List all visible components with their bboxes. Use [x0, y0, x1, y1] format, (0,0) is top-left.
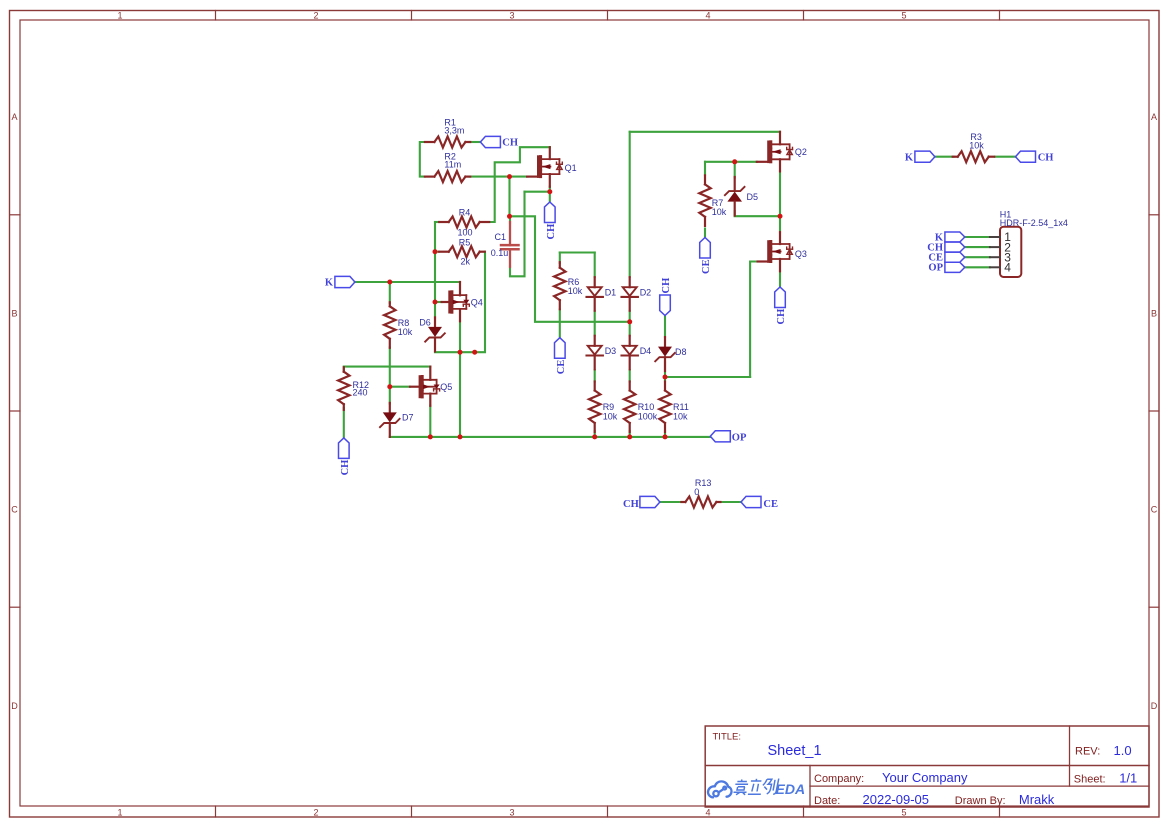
svg-text:CE: CE [701, 259, 712, 274]
wire [459, 321, 461, 352]
svg-text:10k: 10k [603, 411, 618, 421]
svg-text:D: D [1151, 701, 1158, 711]
wire [435, 251, 439, 253]
wire [510, 192, 525, 277]
junction R11 / OP rail [663, 434, 668, 439]
svg-text:10k: 10k [969, 140, 984, 150]
net flag CE [700, 238, 711, 259]
svg-text:5: 5 [901, 10, 906, 20]
wire [459, 352, 461, 437]
junction Q4 gate / D6 [433, 300, 438, 305]
svg-text:C1: C1 [495, 232, 507, 242]
wire [390, 386, 410, 388]
junction R8 / Q5 gate [387, 384, 392, 389]
junction Q4 column / OP rail [458, 434, 463, 439]
svg-text:D2: D2 [640, 288, 652, 298]
wire [664, 431, 666, 437]
svg-text:EDA: EDA [776, 781, 806, 797]
svg-text:10k: 10k [712, 207, 727, 217]
svg-text:D7: D7 [402, 413, 414, 423]
wire [664, 362, 666, 382]
Q5 drain lead [429, 367, 431, 380]
svg-text:2022-09-05: 2022-09-05 [863, 792, 930, 807]
wire [435, 221, 439, 223]
Q4 gate lead [442, 301, 450, 303]
wire [435, 252, 485, 353]
diode D1 [594, 277, 596, 287]
transistor Q3 [769, 242, 793, 262]
svg-text:Sheet:: Sheet: [1074, 773, 1106, 785]
wire [735, 211, 780, 216]
junction source row / R5 rail [472, 350, 477, 355]
resistor R2 [425, 176, 435, 178]
resistor R6 [559, 262, 561, 268]
wire [509, 216, 511, 223]
Q5 gate lead [410, 386, 420, 388]
svg-text:A: A [1151, 112, 1157, 122]
wire [660, 501, 682, 503]
wire [390, 436, 711, 438]
junction D8 / R11 / Q3 gate [663, 375, 668, 380]
transistor Q2 [769, 142, 793, 162]
net flag K [915, 151, 935, 162]
wire [355, 281, 460, 283]
svg-text:A: A [11, 112, 17, 122]
JLC EDA logo cloud [708, 781, 732, 797]
svg-text:10k: 10k [398, 327, 413, 337]
wire [470, 141, 481, 143]
wire [420, 142, 425, 177]
zener diode D8 [664, 337, 666, 347]
wire [750, 262, 758, 378]
svg-text:0.1u: 0.1u [491, 248, 509, 258]
svg-text:Mrakk: Mrakk [1019, 792, 1055, 807]
svg-text:CH: CH [661, 278, 672, 294]
svg-text:2: 2 [313, 808, 318, 818]
wire [594, 311, 596, 336]
svg-text:10k: 10k [568, 286, 583, 296]
junction C1 top [507, 214, 512, 219]
net flag CE [555, 338, 566, 359]
svg-text:Q1: Q1 [565, 163, 577, 173]
svg-text:B: B [1151, 308, 1157, 318]
svg-text:D1: D1 [605, 288, 617, 298]
wire [434, 222, 436, 302]
wire [665, 376, 750, 378]
wire [965, 236, 990, 238]
svg-text:100k: 100k [638, 411, 658, 421]
transistor Q1 [538, 157, 562, 177]
svg-text:1: 1 [117, 10, 122, 20]
wire [630, 131, 780, 133]
wire [965, 246, 990, 248]
Q1 source lead [549, 174, 551, 187]
svg-text:Company:: Company: [814, 773, 864, 785]
junction K / R8 [387, 280, 392, 285]
net flag K [945, 232, 965, 242]
wire [779, 171, 781, 232]
wire [389, 387, 391, 404]
wire [389, 348, 391, 387]
wire [705, 161, 757, 163]
wire [594, 253, 596, 278]
diode D3 [594, 336, 596, 346]
svg-text:CE: CE [763, 499, 778, 510]
net flag CH [480, 136, 500, 147]
junction C1 net / D2-D4 [627, 319, 632, 324]
wire [559, 253, 561, 264]
svg-text:0: 0 [694, 487, 699, 497]
net flag OP [710, 431, 730, 442]
capacitor C1 [501, 244, 519, 247]
pin 3 [990, 256, 1000, 258]
junction R9 / OP rail [592, 434, 597, 439]
resistor R13 [681, 501, 685, 503]
svg-text:2: 2 [313, 10, 318, 20]
resistor R8 [389, 302, 391, 306]
connector H1 [1000, 227, 1021, 277]
Q3 drain lead [779, 232, 781, 244]
wire [629, 370, 631, 382]
svg-text:HDR-F-2.54_1x4: HDR-F-2.54_1x4 [1000, 218, 1068, 228]
resistor R12 [343, 367, 345, 372]
net flag CH [775, 287, 786, 308]
wire [594, 370, 596, 382]
Q3 gate lead [758, 260, 769, 262]
svg-text:B: B [11, 308, 17, 318]
svg-text:TITLE:: TITLE: [713, 732, 742, 743]
svg-text:10k: 10k [673, 411, 688, 421]
wire [525, 191, 550, 193]
net flag CH [1016, 151, 1036, 162]
wire [965, 256, 990, 258]
resistor R10 [629, 382, 631, 391]
svg-text:Q5: Q5 [440, 382, 452, 392]
svg-text:C: C [11, 505, 18, 515]
svg-text:K: K [325, 278, 334, 289]
net flag CH [945, 242, 965, 252]
junction Q1 gate / R2 [507, 174, 512, 179]
JLC EDA logo text (jia li chuang) [733, 779, 779, 795]
svg-text:CH: CH [1038, 153, 1054, 164]
Q2 gate lead [757, 161, 769, 163]
svg-text:11m: 11m [444, 159, 461, 169]
wire [935, 156, 954, 158]
svg-text:C: C [1151, 505, 1158, 515]
svg-text:R4: R4 [459, 208, 471, 218]
wire [965, 266, 990, 268]
resistor R7 [704, 175, 706, 184]
svg-text:D: D [11, 701, 18, 711]
wire [560, 251, 595, 253]
Q2 drain lead [779, 132, 781, 145]
net flag CE [741, 496, 761, 507]
zener diode D6 [434, 317, 436, 327]
wire [720, 501, 741, 503]
wire [629, 311, 631, 336]
net flag CE [945, 252, 965, 262]
resistor R4 [439, 221, 449, 223]
svg-text:D5: D5 [747, 192, 759, 202]
Q4 drain lead [459, 282, 461, 295]
svg-text:OP: OP [928, 263, 943, 274]
wire [664, 316, 666, 338]
net flag K [335, 276, 355, 287]
svg-text:Q3: Q3 [795, 249, 807, 259]
wire [508, 177, 510, 217]
junction Q5 source / OP rail [428, 434, 433, 439]
Q2 source lead [779, 159, 781, 171]
transistor Q5 [420, 377, 440, 397]
svg-text:Date:: Date: [814, 795, 840, 807]
wire [389, 282, 391, 303]
junction Q4 source row [458, 350, 463, 355]
wire [344, 367, 431, 372]
wire [995, 156, 1016, 158]
wire [343, 408, 345, 438]
svg-text:100: 100 [458, 228, 473, 238]
wire [734, 162, 736, 178]
svg-text:Q2: Q2 [795, 147, 807, 157]
svg-text:REV:: REV: [1075, 746, 1100, 758]
svg-text:4: 4 [705, 10, 710, 20]
svg-text:D4: D4 [640, 346, 652, 356]
diode D4 [629, 336, 631, 346]
svg-text:CE: CE [556, 360, 567, 375]
wire [704, 229, 706, 238]
pin 1 [990, 236, 1000, 238]
wire [490, 147, 550, 222]
svg-text:4: 4 [705, 808, 710, 818]
svg-text:Q4: Q4 [471, 298, 483, 308]
wire [434, 302, 436, 318]
pin 2 [990, 246, 1000, 248]
junction R10 / OP rail [627, 434, 632, 439]
Q3 source lead [779, 259, 781, 271]
pin 4 [990, 266, 1000, 268]
svg-text:1: 1 [117, 808, 122, 818]
wire [435, 301, 442, 303]
svg-text:CH: CH [623, 499, 639, 510]
Q1 drain lead [549, 147, 551, 159]
wire [629, 431, 631, 437]
svg-text:1/1: 1/1 [1119, 771, 1137, 786]
resistor R3 [953, 156, 958, 158]
wire [510, 216, 630, 321]
wire [779, 271, 781, 287]
junction Q1 source [547, 189, 552, 194]
net flag CH [660, 295, 671, 316]
svg-text:5: 5 [901, 808, 906, 818]
transistor Q4 [450, 292, 470, 312]
resistor R9 [594, 382, 596, 391]
resistor R5 [439, 251, 449, 253]
net flag CH [640, 496, 660, 507]
svg-text:2k: 2k [461, 257, 471, 267]
junction Q2 gate / R7 / D5 [732, 159, 737, 164]
svg-text:K: K [905, 153, 914, 164]
net flag CH [339, 438, 350, 459]
svg-text:D6: D6 [419, 317, 431, 327]
svg-text:D3: D3 [605, 346, 617, 356]
resistor R11 [664, 382, 666, 391]
wire [594, 431, 596, 437]
svg-text:CH: CH [546, 224, 557, 240]
Q5 source lead [429, 394, 431, 406]
wire [470, 176, 528, 178]
wire [429, 406, 431, 437]
svg-text:Your Company: Your Company [882, 770, 968, 785]
svg-text:CH: CH [502, 138, 518, 149]
diode D2 [629, 277, 631, 287]
svg-text:Sheet_1: Sheet_1 [768, 743, 822, 759]
svg-text:CH: CH [340, 460, 351, 476]
Q4 source lead [459, 309, 461, 321]
svg-text:240: 240 [353, 388, 368, 398]
svg-text:3: 3 [509, 10, 514, 20]
Q1 gate lead [527, 176, 538, 178]
zener diode D5 [734, 177, 736, 191]
junction Q2 source / Q3 drain / D5 [778, 214, 783, 219]
svg-text:CH: CH [776, 309, 787, 325]
net flag CH [545, 202, 556, 223]
wire [549, 187, 551, 202]
wire [704, 162, 706, 175]
svg-text:Drawn By:: Drawn By: [955, 795, 1006, 807]
junction R4/R5 left [433, 249, 438, 254]
svg-text:4: 4 [1004, 261, 1011, 275]
wire [559, 310, 561, 338]
svg-text:D8: D8 [675, 347, 687, 357]
svg-text:OP: OP [732, 432, 747, 443]
zener diode D7 [389, 403, 391, 413]
svg-text:1.0: 1.0 [1114, 743, 1132, 758]
title block [705, 726, 1149, 807]
svg-text:3,3m: 3,3m [444, 125, 464, 135]
svg-text:3: 3 [509, 808, 514, 818]
wire [629, 132, 631, 277]
svg-text:R5: R5 [459, 238, 471, 248]
net flag OP [945, 262, 965, 272]
resistor R1 [425, 141, 435, 143]
